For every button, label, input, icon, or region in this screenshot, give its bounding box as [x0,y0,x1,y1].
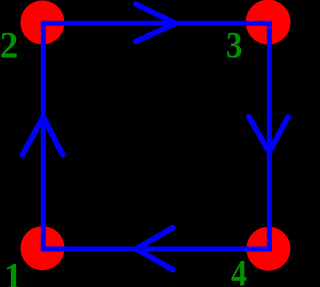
node 1 (bottom-left) [21,226,65,270]
wire edge 3-4 (right) [267,21,272,252]
svg-text:3: 3 [226,26,242,67]
node 4 (bottom-right) [246,227,290,271]
node 3 (top-right) [246,0,291,45]
arrowhead edge 1->2 [22,117,62,155]
node 2 (top-left) [20,0,64,44]
arrowhead edge 4->1 [136,228,172,270]
svg-text:1: 1 [4,256,23,287]
arrowhead edge 2->3 [136,4,176,42]
svg-text:2: 2 [0,26,18,67]
wire edge 1-2 (left) [41,21,46,252]
wire edge 4-1 (bottom) [41,247,272,252]
arrowhead edge 3->4 [249,117,288,152]
wire edge 2-3 (top) [41,21,272,26]
svg-text:4: 4 [231,254,247,287]
